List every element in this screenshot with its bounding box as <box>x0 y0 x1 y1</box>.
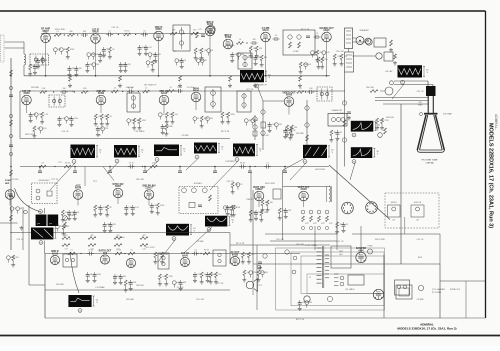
svg-text:420: 420 <box>309 302 312 304</box>
svg-text:78: 78 <box>340 132 342 134</box>
svg-text:R9 1MEG: R9 1MEG <box>116 237 125 239</box>
svg-text:38: 38 <box>334 132 336 134</box>
svg-text:320: 320 <box>234 207 237 209</box>
svg-text:2ND VIDEO IF: 2ND VIDEO IF <box>253 85 267 87</box>
svg-text:C55 .047: C55 .047 <box>196 299 205 301</box>
svg-text:250: 250 <box>128 64 131 66</box>
svg-text:8.05: 8.05 <box>43 128 47 130</box>
svg-text:R2 1K: R2 1K <box>125 31 131 33</box>
svg-text:SEP: SEP <box>5 183 10 185</box>
svg-text:9.05: 9.05 <box>164 254 168 256</box>
svg-text:C31 .22: C31 .22 <box>336 241 344 243</box>
svg-text:R77 1K: R77 1K <box>217 283 224 285</box>
svg-text:C14 .01: C14 .01 <box>61 131 69 133</box>
svg-text:None: None <box>193 89 200 92</box>
svg-text:6CB6: 6CB6 <box>98 92 105 95</box>
svg-text:R9 1MEG: R9 1MEG <box>226 45 235 47</box>
svg-text:.01: .01 <box>194 250 197 252</box>
svg-text:950: 950 <box>158 54 161 56</box>
svg-text:6AU6: 6AU6 <box>262 29 269 32</box>
svg-text:7.05: 7.05 <box>44 114 48 116</box>
svg-text:SYNC: SYNC <box>5 180 11 182</box>
svg-text:CONTRAST: CONTRAST <box>225 160 236 163</box>
svg-text:R12 2.2K: R12 2.2K <box>221 131 230 133</box>
svg-text:L4: L4 <box>316 33 318 35</box>
svg-text:R201 470K: R201 470K <box>265 183 276 185</box>
svg-text:WIDTH: WIDTH <box>391 202 398 204</box>
svg-text:48: 48 <box>20 208 22 210</box>
svg-text:ADMIRAL.: ADMIRAL. <box>494 114 498 130</box>
svg-text:720: 720 <box>79 68 82 70</box>
svg-text:820: 820 <box>294 127 297 129</box>
svg-text:120: 120 <box>210 118 213 120</box>
svg-text:MODELS 22BDX16, 17 (Ch. 23A1,: MODELS 22BDX16, 17 (Ch. 23A1, Run 3) <box>488 123 494 228</box>
svg-text:VOL CONT: VOL CONT <box>145 247 155 249</box>
svg-text:INTERLOCK: INTERLOCK <box>450 289 461 291</box>
svg-text:3.05: 3.05 <box>37 128 41 130</box>
svg-text:6AV6: 6AV6 <box>182 254 188 257</box>
svg-text:6SN7: 6SN7 <box>115 185 122 188</box>
svg-text:FUSE: FUSE <box>368 246 374 248</box>
svg-text:L4: L4 <box>109 31 111 33</box>
svg-text:L4: L4 <box>239 39 241 41</box>
svg-text:PHASE DET: PHASE DET <box>332 109 344 112</box>
svg-text:950: 950 <box>218 274 221 276</box>
svg-text:350: 350 <box>265 272 268 274</box>
svg-text:28: 28 <box>154 205 156 207</box>
svg-text:.01: .01 <box>130 250 133 252</box>
svg-text:R201 470K: R201 470K <box>25 134 36 136</box>
svg-text:L31: L31 <box>416 220 419 222</box>
svg-text:2.05: 2.05 <box>135 207 139 209</box>
svg-text:R50 330: R50 330 <box>296 244 304 246</box>
svg-text:HOR LIN: HOR LIN <box>414 202 422 204</box>
svg-text:4.5MC: 4.5MC <box>293 51 299 53</box>
svg-text:R44 10K: R44 10K <box>126 87 134 89</box>
svg-text:R44 10K: R44 10K <box>386 117 394 119</box>
svg-text:4.05: 4.05 <box>247 272 251 274</box>
svg-text:330: 330 <box>63 88 66 90</box>
svg-text:18: 18 <box>77 212 79 214</box>
svg-text:78: 78 <box>240 184 242 186</box>
svg-text:MODELS 22BDX16, 17 (Ch. 23A1,: MODELS 22BDX16, 17 (Ch. 23A1, Run 3) <box>397 327 456 331</box>
svg-text:C31 .22: C31 .22 <box>416 91 424 93</box>
svg-text:.01: .01 <box>299 88 302 90</box>
svg-text:R2 1K: R2 1K <box>65 163 71 165</box>
svg-text:TP3: TP3 <box>58 162 61 164</box>
svg-text:R31 68K: R31 68K <box>31 87 39 89</box>
svg-text:550: 550 <box>175 114 178 116</box>
svg-text:120: 120 <box>302 302 305 304</box>
svg-text:28: 28 <box>109 207 111 209</box>
svg-text:R12 2.2K: R12 2.2K <box>301 29 310 31</box>
svg-text:L4: L4 <box>145 88 147 90</box>
svg-text:L15 PEAK: L15 PEAK <box>335 112 345 115</box>
svg-text:L4: L4 <box>71 250 73 252</box>
svg-text:L30: L30 <box>392 220 395 222</box>
svg-text:78: 78 <box>346 224 348 226</box>
svg-text:920: 920 <box>293 130 296 132</box>
svg-text:R201 470K: R201 470K <box>55 29 66 31</box>
svg-text:R44 10K: R44 10K <box>136 285 144 287</box>
svg-text:R9 1MEG: R9 1MEG <box>136 131 145 133</box>
svg-text:6W4: 6W4 <box>359 249 365 252</box>
svg-text:R2 1K: R2 1K <box>240 163 246 165</box>
svg-text:PICTURE TUBE: PICTURE TUBE <box>421 160 438 162</box>
svg-text:R77 1K: R77 1K <box>247 89 254 91</box>
svg-text:820: 820 <box>15 257 18 259</box>
svg-text:C3 5MF: C3 5MF <box>181 135 189 137</box>
svg-text:R201 470K: R201 470K <box>375 239 386 241</box>
svg-text:48: 48 <box>155 62 157 64</box>
svg-text:C14 .01: C14 .01 <box>16 239 24 241</box>
svg-text:R31 68K: R31 68K <box>296 133 304 135</box>
svg-text:1ST VIDEO IF: 1ST VIDEO IF <box>144 85 158 87</box>
svg-text:150: 150 <box>259 48 262 50</box>
svg-text:330: 330 <box>83 31 86 33</box>
svg-text:6CD6: 6CD6 <box>301 188 308 191</box>
svg-text:.01: .01 <box>169 87 172 89</box>
svg-text:350: 350 <box>270 202 273 204</box>
svg-text:L21: L21 <box>199 29 202 31</box>
svg-text:650: 650 <box>251 254 254 256</box>
svg-text:18: 18 <box>197 118 199 120</box>
svg-text:R2 1K: R2 1K <box>204 250 210 252</box>
svg-text:C7 10: C7 10 <box>88 250 93 252</box>
svg-text:620: 620 <box>308 64 311 66</box>
svg-text:6BQ7: 6BQ7 <box>42 30 49 33</box>
svg-text:38: 38 <box>163 114 165 116</box>
svg-text:6AH6: 6AH6 <box>286 94 293 97</box>
svg-text:L4: L4 <box>267 163 269 165</box>
svg-text:R9 1MEG: R9 1MEG <box>346 289 355 291</box>
svg-text:12BH7: 12BH7 <box>255 188 263 191</box>
svg-text:78: 78 <box>106 49 108 51</box>
svg-text:R88 470: R88 470 <box>247 199 254 201</box>
svg-text:SPEAKER: SPEAKER <box>360 29 370 32</box>
svg-text:6AU6: 6AU6 <box>52 252 59 255</box>
svg-text:18: 18 <box>184 60 186 62</box>
svg-text:C7 10: C7 10 <box>129 163 134 165</box>
svg-text:KEYED AGC: KEYED AGC <box>39 179 51 182</box>
svg-text:C8 120: C8 120 <box>177 287 184 289</box>
svg-text:C14 .01: C14 .01 <box>416 239 424 241</box>
svg-text:C3 5MF: C3 5MF <box>416 299 424 301</box>
svg-text:.01: .01 <box>275 35 278 37</box>
svg-text:L15 PEAK: L15 PEAK <box>65 90 75 93</box>
svg-text:R120: R120 <box>418 257 422 259</box>
svg-text:330: 330 <box>70 31 73 33</box>
svg-text:R50 330: R50 330 <box>136 179 144 181</box>
svg-text:12AU7: 12AU7 <box>145 187 153 190</box>
svg-text:28: 28 <box>110 116 112 118</box>
svg-text:.01: .01 <box>143 31 146 33</box>
svg-text:220: 220 <box>66 226 69 228</box>
svg-text:6AQ5: 6AQ5 <box>323 29 330 32</box>
svg-text:58: 58 <box>90 274 92 276</box>
svg-text:58: 58 <box>112 49 114 51</box>
svg-text:6AQ5: 6AQ5 <box>232 253 239 256</box>
svg-text:6T8: 6T8 <box>103 252 108 255</box>
svg-text:6AU6: 6AU6 <box>75 187 82 190</box>
svg-text:C55 .047: C55 .047 <box>336 51 345 53</box>
svg-text:C14 .01: C14 .01 <box>111 27 119 29</box>
svg-text:R12 2.2K: R12 2.2K <box>236 243 245 245</box>
svg-text:68: 68 <box>205 60 207 62</box>
svg-text:220: 220 <box>58 49 61 51</box>
svg-text:1.05: 1.05 <box>148 47 152 49</box>
svg-text:C55 .047: C55 .047 <box>276 239 285 241</box>
svg-text:HOR AFC: HOR AFC <box>194 182 203 185</box>
svg-text:L4: L4 <box>57 31 59 33</box>
svg-text:120: 120 <box>255 120 258 122</box>
svg-text:330: 330 <box>253 39 256 41</box>
svg-text:950: 950 <box>325 59 328 61</box>
svg-text:R31 68K: R31 68K <box>56 284 64 286</box>
svg-text:C7 10: C7 10 <box>116 250 121 252</box>
svg-text:6CB6: 6CB6 <box>23 92 30 95</box>
svg-text:.01: .01 <box>114 88 117 90</box>
svg-text:6CB6: 6CB6 <box>225 36 232 39</box>
svg-text:C3 5MF: C3 5MF <box>196 241 204 243</box>
svg-text:C12: C12 <box>64 249 67 251</box>
svg-text:450: 450 <box>241 54 244 56</box>
svg-text:C7 10: C7 10 <box>177 87 182 89</box>
svg-text:21EP4A: 21EP4A <box>425 162 434 165</box>
svg-text:.01: .01 <box>41 163 44 165</box>
svg-text:L15 PEAK: L15 PEAK <box>95 286 105 289</box>
svg-text:R31 68K: R31 68K <box>126 299 134 301</box>
svg-text:C8 120: C8 120 <box>12 179 19 181</box>
svg-text:1 LV 1-A 16KV: 1 LV 1-A 16KV <box>432 288 446 291</box>
svg-text:6CB6: 6CB6 <box>155 28 162 31</box>
svg-text:HV CAP: HV CAP <box>385 70 393 73</box>
svg-text:C31 .22: C31 .22 <box>226 181 234 183</box>
svg-text:18: 18 <box>211 50 213 52</box>
svg-text:6AU6: 6AU6 <box>161 92 168 95</box>
svg-text:HOR DRIVE: HOR DRIVE <box>315 169 326 171</box>
svg-text:R77 1K: R77 1K <box>52 179 59 181</box>
svg-text:TRAP: TRAP <box>417 104 423 107</box>
svg-text:R50 330: R50 330 <box>366 87 374 89</box>
svg-text:820: 820 <box>123 276 126 278</box>
svg-text:ION TRAP: ION TRAP <box>443 113 453 116</box>
svg-text:350: 350 <box>96 64 99 66</box>
svg-text:C3 5MF: C3 5MF <box>246 57 254 59</box>
svg-text:PT CONN: PT CONN <box>432 292 442 294</box>
svg-text:C8 120: C8 120 <box>187 87 194 89</box>
svg-text:C55 .047: C55 .047 <box>261 135 270 137</box>
svg-text:R12 2.2K: R12 2.2K <box>296 319 305 321</box>
svg-text:V OUT TRANS: V OUT TRANS <box>305 244 318 247</box>
